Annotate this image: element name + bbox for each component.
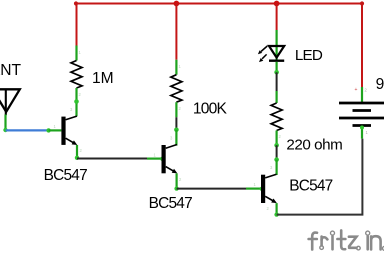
value label 1M (92, 70, 114, 87)
node: blue wire end dot (46, 128, 50, 132)
wire: black segment R3 to Q3 (276, 145, 278, 159)
pin label 1 (R1 top) (79, 50, 82, 55)
pin label 2 (R2 bottom) (179, 106, 182, 111)
resistor R2 100K (171, 75, 182, 103)
value label 100K (193, 100, 228, 117)
wire: green leg R2 pin2 (175, 102, 177, 117)
wire: green leg Q3 base (246, 188, 261, 190)
wire: green leg Q3 collector (276, 160, 278, 175)
svg-text:3: 3 (170, 136, 173, 141)
wire: green leg Q2 emitter (176, 173, 178, 188)
wire: top power rail (red) (74, 1, 364, 5)
resistor R3 220 ohm (271, 103, 282, 131)
wire: green leg R3 pin2 (276, 131, 278, 146)
wire: blue input wire (6, 129, 49, 131)
node: antenna/wire dot (3, 128, 7, 132)
svg-text:2: 2 (267, 206, 270, 211)
pin label 1 (Q3 base) (254, 182, 257, 187)
svg-text:2: 2 (80, 148, 83, 153)
transistor Q3 BC547 (261, 174, 277, 203)
svg-text:LED: LED (295, 47, 323, 64)
node: junction dot rail/LED (274, 1, 280, 7)
svg-text:1: 1 (154, 153, 157, 158)
pin label 2 (battery) (365, 88, 368, 93)
svg-text:3: 3 (270, 165, 273, 170)
svg-text:2: 2 (279, 134, 282, 139)
wire: red drop to LED (276, 3, 278, 31)
wire: green leg battery plus (361, 87, 363, 102)
wire: black segment R2 to Q2 (175, 117, 177, 130)
wire: red drop to R1 (76, 3, 78, 46)
wire: green leg Q2 collector (175, 130, 177, 146)
antenna ANT1 (0, 89, 20, 115)
svg-text:9V: 9V (376, 76, 384, 93)
svg-text:2: 2 (179, 106, 182, 111)
node: Q3 base dot (260, 187, 264, 191)
wire: red drop to R2 (175, 3, 177, 60)
wire: black segment LED to R3 (276, 72, 278, 91)
transistor Q1 BC547 (61, 116, 77, 145)
label BC547 (Q2) (149, 195, 192, 212)
pin label 2 (R1 bottom) (79, 92, 82, 97)
battery BT1 9V (339, 103, 384, 126)
node: Q1 emitter corner dot (75, 156, 79, 160)
label LED (295, 47, 323, 64)
pin label 1 (Q2 base) (154, 153, 157, 158)
wire: green leg LED anode (276, 30, 278, 61)
node: junction dot rail/R2 (174, 1, 180, 7)
wire: green leg R1 pin1 (75, 46, 77, 61)
wire: red drop to battery plus (361, 3, 363, 88)
pin label 1 (Q1 base) (54, 124, 57, 129)
wire: green leg Q2 base (147, 158, 161, 160)
wire: Q1 emitter to Q2 base (black) (77, 158, 147, 160)
value label 9V (376, 76, 384, 93)
resistor R1 1M (71, 61, 82, 89)
wire: green leg Q1 emitter (76, 145, 78, 158)
svg-text:+: + (355, 87, 358, 93)
wire: green leg Q3 emitter (276, 203, 278, 215)
value label 220 ohm (286, 137, 342, 154)
label ANT (0, 62, 21, 79)
svg-text:ANT: ANT (0, 62, 21, 79)
wire: green leg Q1 base (49, 129, 62, 131)
svg-text:100K: 100K (193, 100, 228, 117)
pin label 2 (Q2 emitter) (179, 177, 182, 182)
wire: Q2 emitter to Q3 base (black) (177, 188, 246, 190)
svg-text:1: 1 (179, 64, 182, 69)
svg-text:BC547: BC547 (44, 167, 87, 184)
wire: green leg battery minus (360, 126, 364, 139)
svg-text:1: 1 (366, 130, 369, 135)
svg-text:BC547: BC547 (149, 195, 192, 212)
wire: Q3 emitter to battery minus (black) (277, 139, 363, 215)
label BC547 (Q3) (289, 177, 332, 194)
svg-text:2: 2 (79, 92, 82, 97)
wire: green leg LED cathode (276, 62, 278, 73)
node: LED cathode dot (274, 70, 279, 75)
node: dot R3 wire top (274, 143, 279, 148)
node: Q2 base dot (160, 157, 164, 161)
node: Q2 emitter corner dot (174, 186, 178, 190)
pin label 2 (R3 bottom) (279, 134, 282, 139)
svg-text:1: 1 (54, 124, 57, 129)
svg-text:2: 2 (179, 177, 182, 182)
svg-text:1: 1 (79, 50, 82, 55)
node: dot R2 wire (174, 128, 179, 133)
pin label 3 (Q1 collector) (70, 107, 73, 112)
svg-text:2: 2 (365, 88, 368, 93)
fritzing logo (309, 230, 384, 250)
wire: green leg antenna (4, 115, 6, 131)
pin label 2 (Q1 emitter) (80, 148, 83, 153)
transistor Q2 BC547 (162, 145, 178, 174)
wire: green leg R2 pin1 (175, 60, 177, 75)
wire: green leg R1 pin2 down to Q1 collector (74, 88, 79, 116)
label BC547 (Q1) (44, 167, 87, 184)
svg-text:220 ohm: 220 ohm (286, 137, 342, 154)
LED D1 (258, 46, 284, 62)
svg-text:3: 3 (70, 107, 73, 112)
wire: green leg R3 pin1 (276, 91, 278, 103)
pin label 3 (Q3 collector) (270, 165, 273, 170)
pin label 3 (Q2 collector) (170, 136, 173, 141)
svg-text:1: 1 (254, 182, 257, 187)
pin label + (battery) (355, 87, 358, 93)
pin label 1 (battery) (366, 130, 369, 135)
svg-text:BC547: BC547 (289, 177, 332, 194)
node: Q3 emitter corner dot (274, 212, 278, 216)
svg-text:1M: 1M (92, 70, 114, 87)
pin label 2 (Q3 emitter) (267, 206, 270, 211)
pin label 1 (R2 top) (179, 64, 182, 69)
node: dot R3 wire bottom (274, 157, 279, 162)
